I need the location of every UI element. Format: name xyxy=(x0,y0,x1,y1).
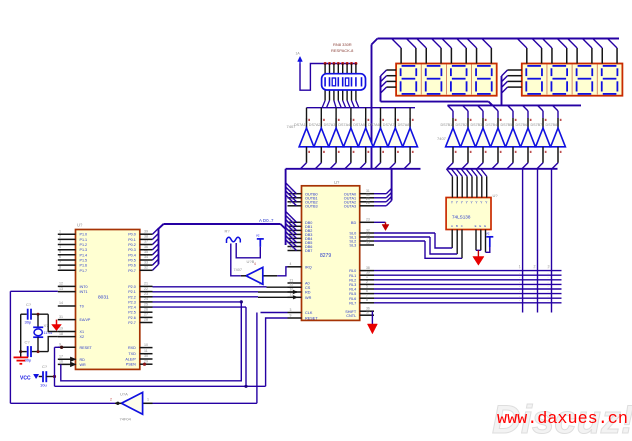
svg-text:P1.5: P1.5 xyxy=(80,259,88,263)
svg-text:28: 28 xyxy=(366,201,370,205)
svg-text:R?: R? xyxy=(225,229,231,234)
svg-text:vc: vc xyxy=(256,233,260,237)
svg-text:A: A xyxy=(451,224,453,228)
svg-text:RL5: RL5 xyxy=(349,292,356,296)
svg-text:P0.0: P0.0 xyxy=(128,233,136,237)
display DS2 (4-digit 7-segment) xyxy=(522,64,623,96)
svg-text:36: 36 xyxy=(144,245,148,249)
svg-text:·: · xyxy=(534,285,535,289)
svg-text:14: 14 xyxy=(59,301,63,305)
wire P2.0 to U2 CS xyxy=(153,282,302,287)
svg-text:RL1: RL1 xyxy=(349,274,356,278)
svg-text:5: 5 xyxy=(366,284,368,288)
svg-text:U?A: U?A xyxy=(120,392,128,397)
svg-text:DB7: DB7 xyxy=(305,249,312,253)
bus entries U1 P0.0-P0.7 xyxy=(153,228,159,270)
svg-text:RESPACK-8: RESPACK-8 xyxy=(331,48,354,53)
svg-text:DS7A1: DS7A1 xyxy=(294,123,306,127)
bus entries buffer row2 bottoms xyxy=(447,163,558,169)
svg-text:RL0: RL0 xyxy=(349,269,356,273)
svg-text:P1.1: P1.1 xyxy=(80,238,88,242)
svg-text:RN8 330R: RN8 330R xyxy=(333,42,352,47)
inverter U4A 74F04 xyxy=(110,392,149,422)
svg-text:7407: 7407 xyxy=(287,124,297,129)
svg-text:P0.6: P0.6 xyxy=(128,264,136,268)
power symbol VCC (blue up arrow) at respack xyxy=(296,52,303,64)
svg-text:T0: T0 xyxy=(80,305,84,309)
svg-text:TXD: TXD xyxy=(128,352,136,356)
svg-text:19: 19 xyxy=(59,327,63,331)
bus entries U2 DB0-7 and OUTB0-3 with left vertical bus xyxy=(286,169,297,251)
svg-text:·: · xyxy=(519,294,520,298)
svg-text:X2: X2 xyxy=(80,335,85,339)
display DS1 segment pins to top bus xyxy=(392,39,492,64)
wire 8279 CLK to inverter input xyxy=(143,313,288,404)
svg-text:C?: C? xyxy=(26,302,32,307)
svg-text:5: 5 xyxy=(59,250,61,254)
svg-text:VCC: VCC xyxy=(20,375,31,381)
wire P2.1 to U2 RD xyxy=(153,290,298,294)
junction dot at PSEN stub xyxy=(143,363,146,366)
svg-text:P2.5: P2.5 xyxy=(128,311,136,315)
power symbol VCC (blue T) at oscillator xyxy=(256,233,264,247)
svg-text:P2.1: P2.1 xyxy=(128,290,136,294)
keyboard matrix column wires (scan lines) xyxy=(523,169,552,313)
svg-text:P1.4: P1.4 xyxy=(80,253,88,257)
svg-text:INT1: INT1 xyxy=(80,290,88,294)
svg-text:9: 9 xyxy=(290,313,292,317)
svg-text:33: 33 xyxy=(144,260,148,264)
svg-text:SL3: SL3 xyxy=(349,244,356,248)
svg-text:13: 13 xyxy=(59,287,63,291)
svg-text:C?: C? xyxy=(42,364,48,369)
svg-text:DS7B5: DS7B5 xyxy=(501,123,513,127)
bus top horizontal (segments over displays) xyxy=(372,39,620,45)
svg-text:·: · xyxy=(519,299,520,303)
svg-text:RESET: RESET xyxy=(305,317,318,321)
bus entries buffer row2 tops to digit bus xyxy=(448,105,559,118)
svg-text:2: 2 xyxy=(59,235,61,239)
svg-text:P2.0: P2.0 xyxy=(128,285,136,289)
svg-text:1A: 1A xyxy=(296,52,301,56)
svg-text:P0.7: P0.7 xyxy=(128,269,136,273)
svg-text:WR: WR xyxy=(305,296,312,300)
svg-text:A D0..7: A D0..7 xyxy=(259,218,274,223)
svg-text:1: 1 xyxy=(147,398,149,402)
svg-text:CLK: CLK xyxy=(305,311,313,315)
svg-text:X1: X1 xyxy=(80,330,85,334)
svg-text:·: · xyxy=(519,281,520,285)
svg-text:4: 4 xyxy=(290,262,292,266)
svg-text:16: 16 xyxy=(59,360,63,364)
svg-text:32: 32 xyxy=(144,266,148,270)
svg-text:·: · xyxy=(534,299,535,303)
U2 right pin stubs OUTA0-3 BD SL0-3 RL0-7 SHIFT CNTL xyxy=(344,189,374,318)
power label VCC (reset circuit) xyxy=(20,374,39,381)
svg-text:8: 8 xyxy=(59,266,61,270)
svg-text:18: 18 xyxy=(59,332,63,336)
keyboard matrix row wires RL0-RL7 xyxy=(374,271,562,303)
svg-text:RL4: RL4 xyxy=(349,288,356,292)
svg-text:DS7B6: DS7B6 xyxy=(516,123,528,127)
wires respack outputs fan to buffer row1 xyxy=(307,101,416,119)
svg-text:P2.2: P2.2 xyxy=(128,295,136,299)
svg-text:27: 27 xyxy=(144,313,148,317)
svg-text:RL3: RL3 xyxy=(349,283,356,287)
buffer U6B 7407 (oscillator driver) xyxy=(234,259,263,284)
svg-text:·: · xyxy=(548,267,549,271)
wire inverter output to U1 INT1 xyxy=(10,291,121,405)
svg-text:DS7A2: DS7A2 xyxy=(309,123,321,127)
IC U1 8031 body xyxy=(76,223,140,370)
red url text www.daxues.cn xyxy=(497,410,628,429)
wire P2.4 run xyxy=(153,306,247,308)
svg-text:E: E xyxy=(479,224,481,228)
wire U1 RESET net down-right to U2 RESET xyxy=(55,346,266,388)
svg-text:21: 21 xyxy=(144,282,148,286)
svg-text:3: 3 xyxy=(59,240,61,244)
keyboard matrix junction labels xyxy=(519,265,550,304)
power arrow at U2 BD pin xyxy=(374,222,389,230)
svg-text:10: 10 xyxy=(144,343,148,347)
svg-text:OUTB3: OUTB3 xyxy=(305,204,318,208)
svg-text:DS7A7: DS7A7 xyxy=(383,123,395,127)
svg-text:·: · xyxy=(548,285,549,289)
svg-text:34: 34 xyxy=(144,255,148,259)
svg-text:39: 39 xyxy=(366,271,370,275)
svg-text:38: 38 xyxy=(144,235,148,239)
svg-text:2: 2 xyxy=(366,280,368,284)
svg-text:4: 4 xyxy=(59,245,61,249)
bus entries U2 OUTA0-3 with right vertical bus xyxy=(374,169,392,206)
bus segment mid horizontal xyxy=(286,168,421,170)
svg-text:C: C xyxy=(461,224,463,228)
svg-text:RXD: RXD xyxy=(128,346,136,350)
svg-text:B: B xyxy=(456,224,458,228)
U3 bottom pin stubs A B C xyxy=(451,224,463,258)
bus AD0..7 (P0 to 8279 DB) xyxy=(159,218,286,264)
svg-text:DS7B7: DS7B7 xyxy=(531,123,543,127)
U1 right pin stubs P0.0-P0.7 P2.0-P2.7 RXD TXD ALE PSEN xyxy=(125,229,152,366)
capacitor C1 30p xyxy=(25,302,32,325)
wire SL2 to U3 C xyxy=(374,241,462,258)
wire X2 pin to crystal bottom node xyxy=(48,337,58,352)
svg-text:·: · xyxy=(519,290,520,294)
U1 pin arrows RD WR xyxy=(71,357,76,366)
svg-text:P0.1: P0.1 xyxy=(128,238,136,242)
wire buffer output to pull-up resistor xyxy=(231,244,246,276)
svg-text:IRQ: IRQ xyxy=(305,265,312,269)
svg-text:ALE/P: ALE/P xyxy=(125,358,136,362)
wire X1 pin to crystal top node xyxy=(48,314,58,331)
wire resistor to VCC port xyxy=(236,243,260,258)
svg-text:30p: 30p xyxy=(25,320,32,325)
svg-text:P0.3: P0.3 xyxy=(128,248,136,252)
svg-text:INT0: INT0 xyxy=(80,285,88,289)
svg-text:28: 28 xyxy=(144,318,148,322)
watermark Discuz xyxy=(492,398,632,441)
svg-text:8031: 8031 xyxy=(98,295,109,301)
svg-text:P1.2: P1.2 xyxy=(80,243,88,247)
wire P2.4 net riser from RESET rail xyxy=(245,307,247,386)
svg-text:·: · xyxy=(548,294,549,298)
svg-text:DS7A4: DS7A4 xyxy=(338,123,350,127)
svg-text:26: 26 xyxy=(144,307,148,311)
svg-text:23: 23 xyxy=(366,218,370,222)
bus digit select under displays xyxy=(381,102,582,106)
svg-text:P1.3: P1.3 xyxy=(80,248,88,252)
svg-text:35: 35 xyxy=(366,240,370,244)
svg-text:·: · xyxy=(519,271,520,275)
svg-text:8: 8 xyxy=(366,298,368,302)
svg-text:RL6: RL6 xyxy=(349,297,356,301)
svg-text:P0.4: P0.4 xyxy=(128,253,136,257)
svg-text:EA/VP: EA/VP xyxy=(80,318,91,322)
svg-text:OUTA3: OUTA3 xyxy=(344,204,356,208)
bus entries buffer row1 outputs xyxy=(301,163,411,169)
respack RN1 pins and junction dots xyxy=(324,62,358,101)
svg-text:74F04: 74F04 xyxy=(120,417,132,422)
svg-text:C?: C? xyxy=(25,339,31,344)
svg-text:7407: 7407 xyxy=(234,268,242,272)
svg-text:4: 4 xyxy=(254,262,256,266)
bus rail under row2 xyxy=(448,168,558,170)
svg-text:DS7B1: DS7B1 xyxy=(441,123,453,127)
svg-text:7407: 7407 xyxy=(437,136,447,141)
svg-text:·: · xyxy=(548,276,549,280)
svg-text:PSEN: PSEN xyxy=(126,363,136,367)
svg-text:DS7B8: DS7B8 xyxy=(546,123,558,127)
svg-text:7: 7 xyxy=(366,294,368,298)
svg-text:·: · xyxy=(534,271,535,275)
respack RN1 labels xyxy=(331,42,354,53)
svg-text:8279: 8279 xyxy=(320,253,331,259)
wire cap ground leg xyxy=(20,314,22,357)
svg-text:RL7: RL7 xyxy=(349,301,356,305)
svg-text:12: 12 xyxy=(59,282,63,286)
wire SL0 to U3 A xyxy=(374,233,452,248)
buffer row 2 (7407 digit drivers x8) xyxy=(437,118,565,163)
svg-text:vc: vc xyxy=(486,231,490,235)
svg-text:DS7B4: DS7B4 xyxy=(486,123,498,127)
svg-text:·: · xyxy=(548,271,549,275)
svg-text:7: 7 xyxy=(59,260,61,264)
bus vertical riser to display segment bus xyxy=(371,45,373,169)
svg-text:·: · xyxy=(534,294,535,298)
svg-text:·: · xyxy=(548,281,549,285)
svg-text:WR: WR xyxy=(80,363,86,367)
svg-text:RL2: RL2 xyxy=(349,278,356,282)
display DS1 (4-digit 7-segment) xyxy=(396,64,497,96)
svg-text:·: · xyxy=(548,299,549,303)
U2 left pin stubs OUTB0-3 DB0-7 IRQ A0 CS RD WR CLK RESET xyxy=(288,189,319,321)
svg-text:3: 3 xyxy=(290,308,292,312)
svg-text:BD: BD xyxy=(351,221,357,225)
svg-text:·: · xyxy=(548,290,549,294)
U1 left pin stubs P1.0-P1.7 INT0 INT1 T0 EA X1 X2 RESET RD WR xyxy=(58,229,93,367)
svg-text:DS7A6: DS7A6 xyxy=(368,123,380,127)
svg-text:RD: RD xyxy=(305,291,311,295)
svg-text:DS7A8: DS7A8 xyxy=(398,123,410,127)
svg-text:22: 22 xyxy=(290,283,294,287)
power symbol VCC (blue T) at U3 E3 xyxy=(486,231,494,252)
display DS2 segment pins to top bus xyxy=(517,39,617,64)
svg-text:P2.4: P2.4 xyxy=(128,306,136,310)
ground arrow (red) at U3 enables xyxy=(473,250,484,265)
svg-text:DS7A5: DS7A5 xyxy=(353,123,365,127)
wire P2.3 run xyxy=(153,301,242,303)
svg-text:37: 37 xyxy=(144,240,148,244)
svg-text:·: · xyxy=(519,267,520,271)
svg-text:74LS138: 74LS138 xyxy=(452,215,471,220)
capacitor C2 30p xyxy=(25,339,32,362)
capacitor C3 10u xyxy=(39,364,56,388)
svg-text:30: 30 xyxy=(144,354,148,358)
svg-text:P1.7: P1.7 xyxy=(80,269,88,273)
power symbol VCC at U1 EA pin (red down arrow) xyxy=(52,320,62,331)
svg-text:P1.0: P1.0 xyxy=(80,233,88,237)
U3 bottom pin stubs E1 E2 E3 xyxy=(475,224,487,252)
svg-text:RD: RD xyxy=(80,358,86,362)
svg-text:DS7B3: DS7B3 xyxy=(471,123,483,127)
display DS2 digit pins to digit bus xyxy=(502,70,522,105)
svg-text:P2.3: P2.3 xyxy=(128,300,136,304)
svg-text:10: 10 xyxy=(290,287,294,291)
svg-text:1: 1 xyxy=(366,275,368,279)
svg-text:DS7A3: DS7A3 xyxy=(324,123,336,127)
buffer row 1 (7407 segment drivers x8) xyxy=(287,118,418,163)
wire P2.2 to U2 WR xyxy=(153,296,298,300)
resistor R1 pull-up (zigzag) xyxy=(225,229,241,243)
svg-text:1: 1 xyxy=(59,229,61,233)
svg-text:P2.7: P2.7 xyxy=(128,321,136,325)
wire U2 IRQ to buffer U6B xyxy=(263,267,288,276)
svg-text:35: 35 xyxy=(144,250,148,254)
svg-text:U?: U? xyxy=(493,193,499,198)
svg-text:·: · xyxy=(534,276,535,280)
svg-text:24: 24 xyxy=(144,297,148,301)
wire U1 WR net to U2 via bottom loop xyxy=(61,300,243,381)
svg-text:www.daxues.cn: www.daxues.cn xyxy=(497,410,628,429)
resistor pack RN1 body xyxy=(322,74,366,90)
crystal X1 11.0592MHz xyxy=(33,314,52,351)
svg-text:CNTL: CNTL xyxy=(346,314,356,318)
wire VCC to respack common rail xyxy=(300,64,356,91)
svg-text:DS7B2: DS7B2 xyxy=(456,123,468,127)
svg-text:39: 39 xyxy=(144,229,148,233)
svg-text:·: · xyxy=(519,285,520,289)
svg-text:22: 22 xyxy=(144,287,148,291)
svg-text:E: E xyxy=(484,224,486,228)
svg-text:P1.6: P1.6 xyxy=(80,264,88,268)
node rail X2 side xyxy=(19,350,48,353)
wire U2 RESET pin riser xyxy=(266,318,288,386)
svg-text:6: 6 xyxy=(366,289,368,293)
svg-text:·: · xyxy=(534,281,535,285)
svg-text:31: 31 xyxy=(59,315,63,319)
IC U2 8279 body xyxy=(302,180,360,320)
svg-text:10u: 10u xyxy=(40,383,47,388)
svg-text:·: · xyxy=(534,290,535,294)
ground symbol (red) for crystal caps xyxy=(14,357,29,363)
svg-text:P0.5: P0.5 xyxy=(128,259,136,263)
U3 output pins to rail (Y0-Y7) xyxy=(446,169,488,205)
svg-text:E: E xyxy=(475,224,477,228)
display DS1 digit pins to digit bus xyxy=(381,70,397,102)
wire SL1 to U3 B xyxy=(374,237,457,254)
svg-text:P0.2: P0.2 xyxy=(128,243,136,247)
svg-text:CS: CS xyxy=(305,286,311,290)
ground arrow (red) at U2 SHIFT CNTL xyxy=(367,311,377,334)
svg-text:U?: U? xyxy=(77,223,83,228)
svg-text:11: 11 xyxy=(290,293,294,297)
svg-text:38: 38 xyxy=(366,266,370,270)
svg-text:P2.6: P2.6 xyxy=(128,316,136,320)
svg-text:37: 37 xyxy=(366,311,370,315)
svg-text:25: 25 xyxy=(144,302,148,306)
svg-text:6: 6 xyxy=(59,255,61,259)
svg-text:RESET: RESET xyxy=(80,346,93,350)
IC U3 74LS138 body xyxy=(446,193,498,230)
svg-text:2: 2 xyxy=(110,398,112,402)
svg-text:·: · xyxy=(534,267,535,271)
node rail X1 side xyxy=(21,313,49,316)
svg-text:·: · xyxy=(519,276,520,280)
svg-text:17: 17 xyxy=(59,355,63,359)
svg-text:U?: U? xyxy=(334,180,340,185)
svg-text:23: 23 xyxy=(144,292,148,296)
svg-text:11: 11 xyxy=(144,349,148,353)
